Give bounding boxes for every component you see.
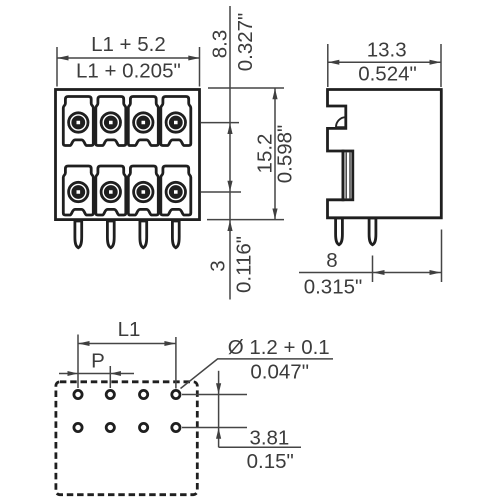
row1 centre extension line	[201, 122, 239, 124]
svg-text:L1 + 5.2: L1 + 5.2	[91, 33, 166, 56]
svg-text:L1 + 0.205": L1 + 0.205"	[76, 60, 181, 83]
PCB dashed outline	[56, 382, 197, 495]
dimension line L1	[78, 343, 176, 345]
svg-text:8.3: 8.3	[209, 30, 232, 59]
body bottom extension line	[207, 219, 284, 221]
pole cell row1 pos3	[128, 97, 158, 146]
side view pin back	[336, 218, 343, 245]
dimension L1 extension line left	[77, 335, 79, 389]
pole cell row2 pos4	[161, 166, 191, 215]
arrow left L1	[78, 341, 90, 346]
row1 extension line right	[182, 394, 247, 396]
svg-text:0.598": 0.598"	[274, 125, 297, 184]
side view contact pin inner lines	[345, 153, 347, 199]
svg-text:P: P	[91, 350, 105, 373]
svg-text:Ø 1.2 + 0.1: Ø 1.2 + 0.1	[228, 336, 330, 359]
svg-text:3: 3	[207, 260, 230, 271]
arrow up at body bottom	[227, 220, 232, 231]
solder pin 3 front view	[140, 221, 147, 248]
chain dimension line 8.3/3	[229, 6, 231, 300]
dimension L1 extension line right	[175, 337, 177, 389]
hole row2 col2	[106, 423, 114, 431]
solder pin 2 front view	[107, 221, 114, 248]
dimension line 3.81 vertical	[218, 371, 220, 448]
dimension L1+5.2 extension line right	[199, 47, 201, 87]
svg-text:0.116": 0.116"	[233, 236, 256, 293]
arrow up at row2	[216, 428, 221, 439]
dimension 13.3 extension line left	[327, 44, 329, 87]
dimension line 13.3	[328, 61, 441, 63]
hole row2 col3	[140, 423, 148, 431]
svg-text:0.524": 0.524"	[358, 63, 417, 86]
arrow right 8	[430, 270, 442, 275]
dimension line 15.2	[274, 89, 276, 220]
solder pin 4 front view	[172, 221, 179, 248]
side view pin front	[369, 218, 376, 245]
pole cell row2 pos1	[63, 166, 93, 215]
extension tick col2	[109, 366, 111, 388]
hole row2 col1	[74, 423, 82, 431]
dimension line P	[59, 373, 134, 375]
row2 extension line right	[182, 427, 247, 429]
hole row2 col4	[172, 423, 180, 431]
pole cell row1 pos4	[161, 97, 191, 146]
arrow up 15.2	[272, 89, 277, 100]
svg-text:0.047": 0.047"	[250, 361, 309, 384]
pole cell row2 pos2	[96, 166, 126, 215]
leader line from hole to diameter label	[181, 359, 334, 389]
arrow left 8	[373, 270, 385, 275]
row2 centre extension line	[201, 191, 241, 193]
svg-text:0.327": 0.327"	[234, 13, 257, 72]
hole row1 col4	[172, 390, 180, 398]
svg-text:0.315": 0.315"	[304, 276, 363, 299]
arrow up at row1 centre	[227, 123, 232, 134]
arrow right 13.3	[430, 60, 442, 65]
svg-text:3.81: 3.81	[249, 426, 289, 449]
dimension line L1+5.2	[57, 57, 200, 59]
hole row1 col2	[106, 390, 114, 398]
arrow P right outside	[110, 371, 121, 376]
hole row1 col3	[140, 390, 148, 398]
svg-text:0.15": 0.15"	[247, 450, 294, 473]
body top extension line	[208, 87, 284, 89]
pole cell row2 pos3	[128, 166, 158, 215]
arrow down at row1	[216, 383, 221, 394]
pole cell row1 pos2	[96, 97, 126, 146]
arrow right L1	[164, 341, 176, 346]
arrow P left outside	[68, 371, 79, 376]
dimension 13.3 extension line right	[440, 44, 442, 87]
arrow right L1+5.2	[188, 56, 200, 61]
arrow down 15.2	[272, 209, 277, 220]
side view latch arc	[336, 117, 346, 127]
svg-text:L1: L1	[118, 318, 141, 341]
pole cell row1 pos1	[63, 97, 93, 146]
hole row1 col1	[74, 390, 82, 398]
svg-text:13.3: 13.3	[367, 39, 407, 62]
arrow left L1+5.2	[57, 56, 69, 61]
dimension 8 extension line from pin	[372, 256, 374, 283]
front view connector body	[56, 90, 200, 220]
arrow down at row2 centre	[227, 181, 232, 192]
dimension 8 extension line right	[441, 230, 443, 283]
solder pin 1 front view	[75, 221, 82, 248]
arrow left 13.3	[328, 60, 340, 65]
dimension line 8 with fraction bar	[299, 272, 442, 274]
svg-text:8: 8	[326, 249, 337, 272]
fraction bar 3.81	[219, 446, 301, 448]
side view body outline	[328, 90, 442, 218]
dimension L1+5.2 extension line left	[56, 47, 58, 87]
side view pin channel	[343, 151, 353, 200]
